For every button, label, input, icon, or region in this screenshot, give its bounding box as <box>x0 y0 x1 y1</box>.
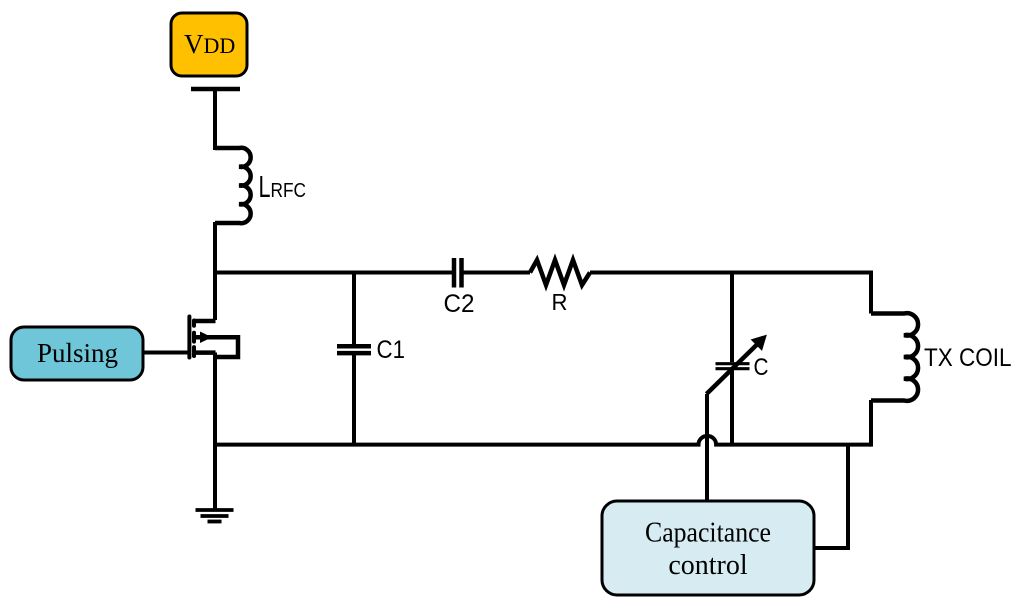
gate wire from Pulsing box <box>143 351 190 355</box>
wire C1 top <box>352 273 356 347</box>
wire source to ground <box>213 353 217 510</box>
svg-text:R: R <box>552 289 568 315</box>
svg-text:C2: C2 <box>444 290 475 318</box>
body arrow <box>200 332 212 344</box>
wire VDD to inductor <box>213 89 217 150</box>
body wire loop <box>194 337 238 357</box>
wire C2 to R <box>462 271 531 275</box>
source stub <box>194 350 216 355</box>
capacitor C1 plates <box>337 346 371 353</box>
svg-text:Pulsing: Pulsing <box>37 338 118 368</box>
ground symbol <box>196 510 234 522</box>
svg-text:VDD: VDD <box>184 29 235 59</box>
top bus wire: drain node to C2 <box>213 271 454 275</box>
variable capacitor plates <box>716 364 750 369</box>
inductor LRFC <box>215 148 251 223</box>
svg-text:control: control <box>668 550 748 581</box>
bottom bus wire with hop <box>215 436 871 445</box>
variable capacitor C: top wire <box>730 273 734 363</box>
wire C1 bottom <box>352 353 356 445</box>
Capacitance control box <box>602 501 814 595</box>
variable capacitor bottom wire <box>730 370 734 445</box>
variable capacitor arrow <box>707 337 766 395</box>
capacitance control right wire <box>814 445 848 548</box>
svg-text:Capacitance: Capacitance <box>645 518 771 549</box>
top bus wire: R to TX coil <box>590 271 873 275</box>
Pulsing input box <box>11 327 143 380</box>
TX coil inductor <box>871 313 918 401</box>
svg-text:TX COIL: TX COIL <box>924 344 1012 372</box>
svg-text:LRFC: LRFC <box>259 169 307 204</box>
gate bar <box>187 317 191 358</box>
channel dashes <box>192 321 196 326</box>
wire top right corner down to TX coil <box>869 271 873 314</box>
resistor R <box>530 260 590 285</box>
VDD terminal bar <box>191 87 240 92</box>
svg-text:C: C <box>754 354 769 381</box>
transistor Q1 (NMOS) <box>189 317 238 358</box>
wire inductor to drain node <box>213 222 217 320</box>
capacitance control wire (vertical through hop) <box>705 394 709 502</box>
drain stub <box>194 319 216 324</box>
wire TX coil bottom <box>869 400 873 447</box>
svg-text:C1: C1 <box>377 336 406 364</box>
capacitor C2 plates <box>454 258 462 288</box>
VDD supply box <box>171 13 247 76</box>
